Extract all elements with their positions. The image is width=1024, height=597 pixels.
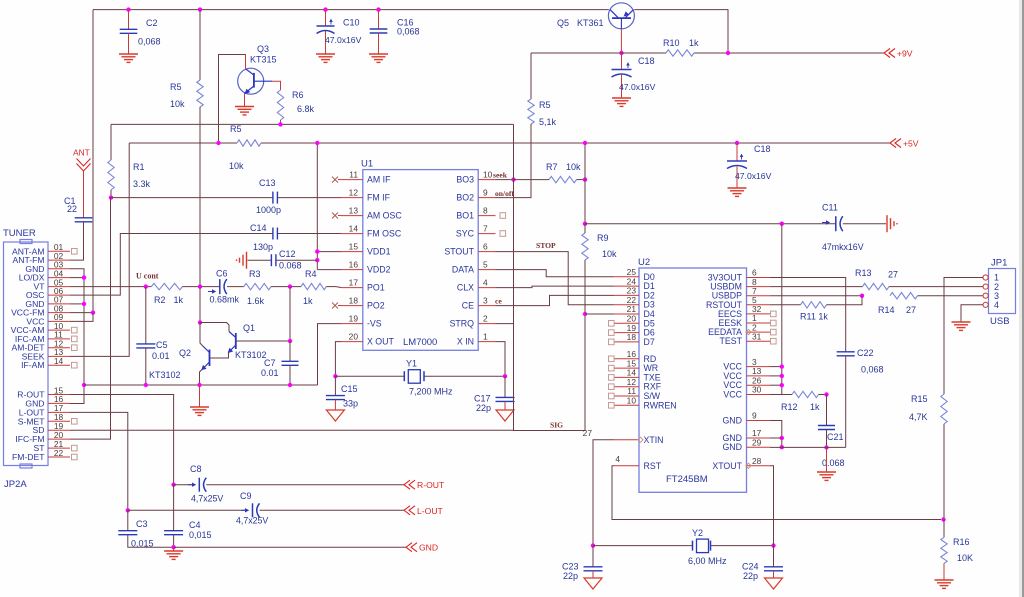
node junction R12 C21 <box>824 392 828 396</box>
svg-text:10k: 10k <box>229 161 244 171</box>
no-connect square U2 pin 18 <box>609 339 615 345</box>
svg-text:TEST: TEST <box>720 336 743 346</box>
svg-text:R3: R3 <box>249 269 261 279</box>
node junction USBDP R11 <box>860 294 864 298</box>
svg-text:1: 1 <box>483 332 488 342</box>
svg-text:R9: R9 <box>597 233 609 243</box>
U1 pin 3 CE <box>478 305 495 307</box>
svg-text:AM OSC: AM OSC <box>367 211 402 221</box>
svg-text:U cont: U cont <box>136 272 159 281</box>
port GND arrow <box>406 543 412 552</box>
crystal Y2 6MHz <box>692 541 694 551</box>
capacitor C22 0,068 <box>837 351 855 353</box>
ground triangle below C23 <box>584 578 602 589</box>
svg-text:R7: R7 <box>546 162 558 172</box>
node junction GND29 <box>780 445 784 449</box>
U2 pin 29 GND <box>747 446 771 448</box>
svg-text:R5: R5 <box>230 124 242 134</box>
wire collectors node down <box>199 287 201 323</box>
svg-text:15: 15 <box>349 242 359 252</box>
JP1 pin 1 <box>983 275 988 280</box>
node junction GND17 <box>780 436 784 440</box>
resistor R10 1k <box>666 50 694 56</box>
wire GND output line <box>174 546 406 548</box>
U2 pin 28 XTOUT <box>747 465 771 467</box>
wire Q1 emitter to Q2 base <box>210 352 229 358</box>
svg-text:1k: 1k <box>810 402 820 412</box>
no-connect square pin 8 <box>500 213 506 219</box>
no-connect pin 11 <box>72 336 78 342</box>
node junction L-OUT line <box>126 508 130 512</box>
svg-text:ce: ce <box>495 297 502 306</box>
svg-text:R1: R1 <box>133 162 145 172</box>
U1 pin 19 -VS <box>341 323 363 325</box>
port L-OUT arrow <box>404 506 410 515</box>
svg-text:Q3: Q3 <box>257 44 269 54</box>
capacitor C17 22p <box>504 376 506 397</box>
JP1 pin 4 <box>983 302 988 307</box>
wire XTOUT down <box>770 466 774 546</box>
svg-text:+9V: +9V <box>897 49 913 59</box>
svg-text:STOP: STOP <box>536 241 556 250</box>
node junction C18 +5V rail <box>735 141 739 145</box>
svg-text:BO2: BO2 <box>456 193 474 203</box>
svg-text:8: 8 <box>483 206 488 216</box>
capacitor C23 22p <box>592 546 594 567</box>
wire VCC pin stubs to feed <box>770 366 782 368</box>
U1 pin 11 AM IF <box>341 179 363 181</box>
chassis symbol C12 line left <box>246 252 248 269</box>
resistor R13 27 <box>863 283 890 289</box>
resistor R16 10K <box>943 520 945 538</box>
node junction C12 line <box>315 258 319 262</box>
svg-text:USB: USB <box>990 316 1010 327</box>
no-connect square U2 pin 12 <box>609 384 615 390</box>
svg-text:BO1: BO1 <box>456 211 474 221</box>
svg-text:STOUT: STOUT <box>444 247 474 257</box>
svg-text:Y2: Y2 <box>692 528 703 538</box>
capacitor C3 0,015 <box>127 510 129 530</box>
U2 pin 21 D4 <box>614 313 639 315</box>
node junction C11 line <box>583 222 587 226</box>
svg-text:5,1k: 5,1k <box>539 117 557 127</box>
svg-text:VDD2: VDD2 <box>367 265 391 275</box>
svg-text:31: 31 <box>752 331 762 341</box>
no-connect square U2 pin 14 <box>609 375 615 381</box>
svg-text:R4: R4 <box>305 269 317 279</box>
svg-text:19: 19 <box>349 314 359 324</box>
U2 pin 27 XTIN <box>614 439 639 441</box>
wire pin 08 to +9V vertical <box>70 312 93 314</box>
svg-text:PO1: PO1 <box>367 283 385 293</box>
svg-text:20: 20 <box>349 332 359 342</box>
svg-text:SYC: SYC <box>456 229 475 239</box>
no-connect pin 12 <box>72 345 78 351</box>
svg-text:KT361: KT361 <box>577 18 604 28</box>
svg-text:13: 13 <box>349 206 359 216</box>
svg-text:X OUT: X OUT <box>367 337 395 347</box>
svg-text:R15: R15 <box>911 394 928 404</box>
op-amp U2 FT245BM box <box>639 268 747 492</box>
wire D4 row <box>585 313 614 315</box>
U2 pin 22 D3 <box>614 304 639 306</box>
svg-text:1000p: 1000p <box>256 205 281 215</box>
resistor R9 10k <box>582 233 588 260</box>
svg-text:C11: C11 <box>822 203 838 213</box>
svg-text:6: 6 <box>483 242 488 252</box>
wire -VS pin19 to ground line <box>318 324 342 385</box>
node junction C10 top rail <box>323 7 327 11</box>
svg-text:22p: 22p <box>743 571 758 581</box>
node junction GND bus main ground wire <box>82 383 86 387</box>
U2 pin 4 RST <box>614 465 639 467</box>
wire 3V3OUT to C22 <box>770 278 846 352</box>
no-connect pin 01 <box>72 249 78 255</box>
svg-text:4: 4 <box>994 300 999 310</box>
U2 pin 30 VCC <box>747 394 771 396</box>
U1 pin 2 STRQ <box>478 323 495 325</box>
capacitor C12 0.068 <box>270 254 272 266</box>
U1 pin 20 X OUT <box>341 341 363 343</box>
node junction Q3 collector rail <box>216 141 220 145</box>
svg-text:0,068: 0,068 <box>138 37 161 47</box>
node junction pin08 <box>91 310 95 314</box>
no-connect X pin 11 <box>332 177 338 183</box>
wire +5V rail <box>129 142 237 144</box>
node junction C2 on top rail <box>126 7 130 11</box>
svg-text:27: 27 <box>906 305 916 315</box>
node junction R7 right <box>583 177 587 181</box>
JP1 pin 3 <box>983 293 988 298</box>
svg-text:47.0x16V: 47.0x16V <box>325 35 362 45</box>
svg-text:R16: R16 <box>953 537 970 547</box>
no-connect pin 21 <box>72 445 78 451</box>
crystal Y1 7.2MHz <box>403 371 405 381</box>
svg-text:GND: GND <box>722 416 742 426</box>
svg-text:C4: C4 <box>189 520 201 530</box>
marker XTIN <box>638 437 643 442</box>
no-connect square U2 pin 10 <box>609 403 615 409</box>
svg-text:VDD1: VDD1 <box>367 247 391 257</box>
svg-text:4,7x25V: 4,7x25V <box>191 494 223 504</box>
node junction C21 ground line <box>824 445 828 449</box>
svg-text:11: 11 <box>349 170 358 180</box>
svg-text:7,200 MHz: 7,200 MHz <box>409 387 453 397</box>
U2 pin 32 EECS <box>747 313 771 315</box>
svg-text:1k: 1k <box>689 38 699 48</box>
ground below C18 second <box>728 187 747 189</box>
wire C1 to pin02 <box>70 222 84 260</box>
marker XTOUT <box>746 463 751 468</box>
U2 pin 18 D7 <box>614 341 639 343</box>
U2 pin 7 USBDP <box>747 295 771 297</box>
svg-text:0,015: 0,015 <box>131 539 154 549</box>
svg-text:C2: C2 <box>146 18 158 28</box>
capacitor C8 4,7x25V <box>174 484 193 486</box>
svg-text:C18: C18 <box>638 56 655 66</box>
node junction right of R10 <box>726 51 730 55</box>
svg-text:22: 22 <box>54 448 64 458</box>
svg-text:RWREN: RWREN <box>644 400 677 410</box>
wire VCC feed vertical <box>781 224 783 395</box>
transistor Q3 KT315 <box>238 68 264 94</box>
svg-text:+5V: +5V <box>903 139 919 149</box>
svg-text:22: 22 <box>67 204 77 214</box>
svg-text:R6: R6 <box>292 90 304 100</box>
resistor R15 4,7K <box>941 394 947 424</box>
node junction pin07 GND bus <box>82 302 86 306</box>
ground below C21 <box>826 448 828 473</box>
svg-text:FM-DET: FM-DET <box>12 452 45 462</box>
wire JP1 pin4 to ground <box>961 305 983 322</box>
wire VDD2 pin16 <box>317 269 341 271</box>
U2 pin 23 D2 <box>614 294 639 296</box>
capacitor C13 1000p <box>272 192 274 204</box>
wire X IN pin1 down <box>496 342 506 377</box>
capacitor C10 electrolytic <box>325 10 327 26</box>
wire GND bus pins 03 04 07 16 <box>70 269 84 404</box>
no-connect square U2 pin 20 <box>609 321 615 327</box>
wire FM IF line <box>111 197 273 199</box>
svg-text:KT315: KT315 <box>250 55 277 65</box>
svg-text:29: 29 <box>752 437 762 447</box>
node junction X OUT crystal <box>333 374 337 378</box>
svg-text:C10: C10 <box>343 18 360 28</box>
svg-text:FT245BM: FT245BM <box>666 474 708 485</box>
svg-text:C12: C12 <box>279 249 296 259</box>
no-connect X pin 13 <box>332 213 338 219</box>
node junction VDD1 <box>315 249 319 253</box>
svg-text:27: 27 <box>583 428 593 438</box>
ground below C18 <box>612 97 631 99</box>
no-connect square U2 pin 11 <box>609 393 615 399</box>
wire Q3 collector to +5V rail <box>245 55 247 69</box>
svg-text:0.068: 0.068 <box>279 261 302 271</box>
resistor R2 1k <box>151 283 182 289</box>
wire Q1 base to R3 R4 node <box>236 340 290 342</box>
svg-text:17: 17 <box>349 278 359 288</box>
U2 pin 17 GND <box>747 437 771 439</box>
node junction VCC feed <box>780 222 784 226</box>
svg-text:0,068: 0,068 <box>397 27 420 37</box>
svg-text:7: 7 <box>483 224 488 234</box>
svg-text:3.3k: 3.3k <box>133 179 151 189</box>
U2 pin 12 RXF <box>614 386 639 388</box>
connector JP2A TUNER box <box>4 242 49 466</box>
svg-text:JP2A: JP2A <box>4 479 27 490</box>
svg-text:1k: 1k <box>174 295 184 305</box>
marker EEDATA <box>746 330 751 335</box>
svg-text:RST: RST <box>644 461 662 471</box>
wire pin 20 IFC-FM to R1 node <box>70 198 111 440</box>
svg-text:AM IF: AM IF <box>367 175 391 185</box>
capacitor C16 <box>378 10 380 29</box>
resistor R5 5,1k vertical <box>530 53 532 99</box>
svg-text:0,015: 0,015 <box>189 530 212 540</box>
op-amp U1 LM7000 box <box>363 170 478 351</box>
capacitor C18 electrolytic on +5V <box>736 143 738 161</box>
U2 pin 13 VCC <box>747 375 771 377</box>
capacitor C15 33p <box>334 376 336 395</box>
U1 pin 15 VDD1 <box>341 251 363 253</box>
wire DATA to D0 <box>496 270 615 277</box>
U2 pin 19 D6 <box>614 332 639 334</box>
JP1 pin 2 <box>983 284 988 289</box>
svg-text:PO2: PO2 <box>367 301 385 311</box>
svg-text:Q5: Q5 <box>557 18 569 28</box>
wire pin 17 L-OUT down <box>70 412 128 510</box>
wire XTIN to crystal <box>593 440 614 546</box>
wire crystal Y2 line <box>593 545 693 547</box>
U1 pin 18 PO2 <box>341 305 363 307</box>
transistor Q5 KT361 <box>608 3 634 29</box>
svg-text:10K: 10K <box>957 553 973 563</box>
U2 pin 3 VCC <box>747 366 771 368</box>
wire pin 06 OSC to C14 <box>70 234 273 296</box>
no-connect square U2 pin 19 <box>609 330 615 336</box>
no-connect pin 10 <box>72 327 78 333</box>
no-connect square U2 pin 31 <box>771 338 777 344</box>
svg-text:CE: CE <box>462 301 474 311</box>
node junction +5V at 585 <box>583 141 587 145</box>
wire STRQ pin2 <box>496 323 514 325</box>
svg-text:XTOUT: XTOUT <box>712 461 742 471</box>
wire pin 19 SD signal line <box>70 429 514 431</box>
svg-text:VCC: VCC <box>723 390 742 400</box>
wire pin 13 SEEK to +5V rail <box>70 143 129 356</box>
U1 pin 13 AM OSC <box>341 215 363 217</box>
svg-text:GND: GND <box>419 543 438 553</box>
wire horizontal 124 line <box>111 123 514 125</box>
ground below Q2 emitter rail <box>199 385 201 407</box>
svg-text:CLX: CLX <box>457 283 474 293</box>
U2 pin 9 GND <box>747 420 771 422</box>
port +5V arrow <box>890 139 896 148</box>
ground below Q3 <box>235 106 254 108</box>
svg-text:1k: 1k <box>303 296 313 306</box>
capacitor C7 0.01 <box>289 341 291 361</box>
svg-text:R12: R12 <box>781 402 798 412</box>
no-connect square U2 pin 16 <box>609 356 615 362</box>
svg-text:27: 27 <box>888 270 898 280</box>
wire top +9V rail left segment <box>93 9 609 11</box>
resistor R11 1k <box>770 304 801 306</box>
svg-text:28: 28 <box>752 456 762 466</box>
svg-text:FM IF: FM IF <box>367 193 391 203</box>
svg-text:6.8k: 6.8k <box>297 104 315 114</box>
svg-text:R14: R14 <box>878 305 895 315</box>
wire STOUT to D3 <box>496 252 615 305</box>
svg-text:4: 4 <box>615 454 620 464</box>
wire BO3 seek net <box>496 179 514 181</box>
svg-text:C9: C9 <box>240 491 252 501</box>
node junction seek net <box>511 177 515 181</box>
resistor R7 10k <box>549 176 577 182</box>
U2 pin 20 D5 <box>614 322 639 324</box>
node junction C5 top <box>144 284 148 288</box>
wire C12 line <box>248 259 272 261</box>
capacitor C11 47mk <box>835 216 837 231</box>
svg-text:D7: D7 <box>644 337 655 347</box>
svg-text:U1: U1 <box>361 159 373 170</box>
svg-text:10k: 10k <box>170 99 185 109</box>
svg-text:U2: U2 <box>638 257 650 268</box>
svg-text:9: 9 <box>483 188 488 198</box>
wire GND29 line to C22 <box>770 446 846 448</box>
wire CE to D2 <box>496 295 615 305</box>
svg-text:22p: 22p <box>563 571 578 581</box>
svg-text:-VS: -VS <box>367 319 382 329</box>
svg-text:4,7x25V: 4,7x25V <box>236 516 268 526</box>
svg-text:STRQ: STRQ <box>450 319 475 329</box>
no-connect square U2 pin 15 <box>609 365 615 371</box>
U2 pin 26 VCC <box>747 384 771 386</box>
svg-text:X IN: X IN <box>457 337 474 347</box>
wire CLX to D1 <box>496 286 615 288</box>
node junction Q5 collector +9V line <box>619 51 623 55</box>
svg-text:IF-AM: IF-AM <box>21 360 44 370</box>
node junction Q2 emitter ground <box>197 383 201 387</box>
wire USBDM to R13 <box>770 286 863 288</box>
port R-OUT arrow <box>404 480 410 489</box>
svg-text:seek: seek <box>493 171 508 180</box>
node junction R3 R4 <box>288 284 292 288</box>
wire VDD1 pin15 <box>317 251 341 253</box>
svg-text:Q1: Q1 <box>243 323 255 333</box>
node junction C7 bottom <box>288 383 292 387</box>
U2 pin 1 EESK <box>747 322 771 324</box>
node junction pin04 GND bus <box>82 275 86 279</box>
svg-text:22p: 22p <box>476 403 491 413</box>
wire VDD feed from +5V rail <box>316 143 318 270</box>
wire antenna to C1 <box>83 171 85 218</box>
svg-text:R13: R13 <box>855 268 872 278</box>
U2 pin 14 TXE <box>614 376 639 378</box>
no-connect square pin 7 <box>500 231 506 237</box>
svg-text:10k: 10k <box>566 162 581 172</box>
svg-text:L-OUT: L-OUT <box>417 506 444 516</box>
svg-text:130p: 130p <box>253 242 273 252</box>
capacitor C6 0.68mk <box>219 279 221 294</box>
svg-text:Q2: Q2 <box>179 348 191 358</box>
svg-text:3: 3 <box>483 296 488 306</box>
no-connect pin 22 <box>72 454 78 460</box>
U2 pin 11 S/W <box>614 395 639 397</box>
svg-text:0.068: 0.068 <box>822 458 845 468</box>
chassis symbol right of C11 <box>886 215 888 232</box>
svg-text:4: 4 <box>483 278 488 288</box>
capacitor C5 0.01 <box>145 287 147 344</box>
wire Q2 emitter to ground wire <box>200 370 203 386</box>
ground below C2 <box>119 53 138 55</box>
U2 pin 8 USBDM <box>747 286 771 288</box>
svg-text:C7: C7 <box>264 358 276 368</box>
node junction R5 top rail <box>198 7 202 11</box>
node junction RST R15 R16 <box>941 517 945 521</box>
node junction R6 bottom <box>278 122 282 126</box>
svg-text:10: 10 <box>483 170 493 180</box>
svg-text:SIG: SIG <box>550 421 563 430</box>
svg-text:C13: C13 <box>259 178 276 188</box>
svg-text:18: 18 <box>349 296 359 306</box>
resistor R14 27 <box>890 293 918 299</box>
U1 pin 16 VDD2 <box>341 269 363 271</box>
wire VT U cont line <box>70 286 151 288</box>
U2 pin 25 D0 <box>614 276 639 278</box>
wire C11 +5V branch line <box>585 223 836 225</box>
node junction GND line C4 <box>171 545 175 549</box>
svg-text:18: 18 <box>627 332 637 342</box>
